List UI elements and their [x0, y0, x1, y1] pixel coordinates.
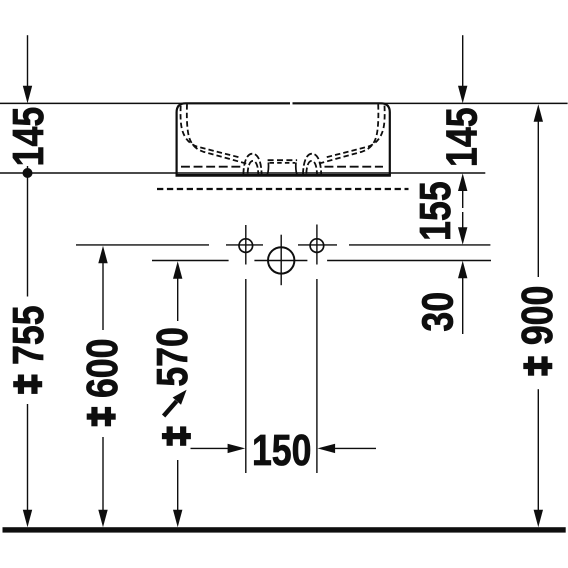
drain hole centerline: [280, 235, 282, 286]
drain area dashes: [268, 159, 298, 161]
extension line right (150 dim): [316, 279, 318, 473]
washbasin bottom edge: [176, 174, 391, 177]
svg-text:900: 900: [514, 286, 562, 346]
washbasin bottom reference line: [0, 172, 485, 174]
dim line 900 (x=538.3): [534, 104, 543, 527]
dim line 145/155/30 (x=462.7): [458, 35, 467, 334]
svg-text:30: 30: [414, 292, 462, 332]
svg-text:150: 150: [252, 427, 312, 475]
svg-text:155: 155: [412, 181, 460, 241]
dashed wall/shelf line under basin: [157, 188, 409, 190]
right boss outer arc: [303, 154, 321, 175]
faucet hole right centerline: [316, 225, 318, 265]
150 dim left arrow: [191, 444, 246, 453]
washbasin outline: [177, 103, 390, 175]
dim line 755 (x=27.5): [23, 35, 33, 527]
faucet hole left circle: [239, 239, 253, 253]
left boss inner arc: [248, 161, 259, 175]
drain hole circle: [268, 247, 294, 273]
faucet hole right circle: [310, 239, 324, 253]
pointer arrow for 570: [164, 390, 187, 416]
faucet-hole lower reference line: [152, 260, 491, 262]
extension line left (150 dim): [245, 279, 247, 473]
floor line: [3, 527, 566, 532]
interior bottom dashed line right: [325, 166, 384, 168]
adjustable symbol for 755: [13, 375, 42, 394]
150 dim right arrow: [318, 444, 377, 453]
faucet-hole upper reference line: [76, 244, 490, 246]
inner bowl profile right inner: [315, 104, 378, 164]
right boss inner arc: [306, 161, 317, 175]
adjustable symbol for 570: [162, 426, 191, 445]
svg-text:600: 600: [79, 339, 127, 399]
drain side ticks: [267, 162, 297, 174]
dim line 600 (x=103): [98, 246, 107, 528]
dim line 570 (x=177.7): [173, 261, 182, 527]
svg-text:145: 145: [5, 107, 53, 167]
adjustable symbol for 600: [87, 407, 116, 426]
svg-text:755: 755: [5, 305, 53, 365]
inner bowl profile left inner: [187, 104, 250, 164]
interior bottom dashed line left: [181, 166, 241, 168]
left boss outer arc: [243, 154, 261, 175]
adjustable symbol for 900: [523, 356, 552, 375]
svg-text:570: 570: [149, 327, 197, 387]
inner bowl profile left outer: [181, 106, 241, 158]
faucet hole left centerline: [245, 225, 247, 265]
basin interior dashed section: [181, 104, 385, 175]
top reference line (rim level): [0, 102, 568, 104]
svg-text:145: 145: [438, 107, 486, 167]
inner bowl profile right outer: [324, 106, 384, 158]
